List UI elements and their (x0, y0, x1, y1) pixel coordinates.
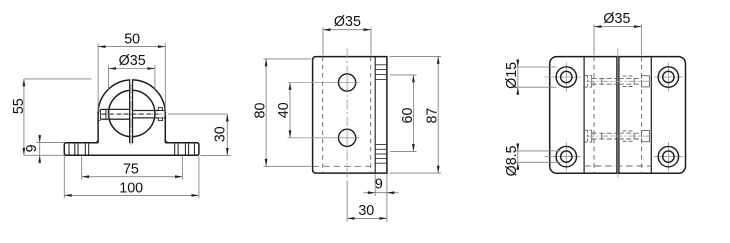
slit right line (132, 80, 134, 143)
extension line to 30 dim (346, 181, 348, 222)
dim 9 base thickness (36, 142, 64, 144)
hidden body bottom (313, 165, 371, 167)
clamp screw tabs right (158, 108, 162, 111)
dim 9 flange thickness (374, 174, 376, 196)
hole 2 centerline (288, 137, 360, 139)
svg-text:87: 87 (425, 108, 441, 124)
clamp slot through body (100, 108, 129, 110)
flange slot ticks right (174, 144, 176, 155)
svg-text:80: 80 (252, 103, 268, 119)
body right side (164, 112, 166, 143)
dim Ø15 (514, 66, 557, 68)
hidden clamp screw band 1 (584, 74, 592, 76)
dim 75 (81, 156, 83, 180)
body silhouette left (583, 57, 585, 174)
flange slot ticks left (68, 144, 70, 155)
vertical centerline right view (617, 49, 619, 180)
dim 100 (63, 156, 65, 198)
centerline extension to 30 dim (168, 113, 227, 115)
body silhouette right (650, 57, 652, 174)
hidden bore right (641, 57, 643, 174)
body left side (97, 112, 99, 143)
hole 2 (339, 129, 356, 146)
dim 40 (289, 83, 291, 138)
slot centerline dashes (102, 113, 163, 115)
hole bottom-right Ø15/Ø8.5 (654, 156, 683, 158)
dim 80 (263, 58, 311, 60)
dim 30 right (201, 154, 231, 156)
side view outline (313, 57, 387, 174)
slit left (616, 57, 618, 174)
hidden bore right (370, 57, 372, 174)
svg-text:Ø35: Ø35 (334, 14, 361, 30)
dim 50 top (97, 43, 99, 112)
dim 30 depth (347, 217, 387, 219)
hole 2 crosshair h (339, 137, 356, 139)
vertical centerline mid view (346, 49, 348, 180)
svg-text:Ø8.5: Ø8.5 (504, 145, 520, 176)
svg-text:Ø15: Ø15 (504, 62, 520, 89)
hidden bore left (322, 57, 324, 174)
dim Ø35 left view (108, 65, 110, 89)
svg-text:Ø35: Ø35 (603, 11, 630, 27)
right fillet (165, 139, 169, 143)
dim 60 (390, 74, 417, 76)
svg-text:75: 75 (123, 162, 139, 178)
body outer arc (98, 80, 165, 114)
vertical centerline (130, 84, 132, 147)
svg-text:9: 9 (375, 177, 383, 193)
svg-text:60: 60 (400, 108, 416, 124)
hole 1 centerline (288, 82, 360, 84)
hole 1 crosshair h (339, 82, 356, 84)
slit gap (white) (130, 79, 132, 143)
svg-text:Ø35: Ø35 (119, 53, 146, 69)
dim Ø35 right view (593, 24, 595, 55)
hidden bore left (593, 57, 595, 174)
slit left line (129, 80, 131, 143)
serration lines bottom (375, 144, 387, 146)
flange inner face line (374, 57, 376, 174)
base plate outline (64, 143, 199, 156)
hole top-left Ø15/Ø8.5 (544, 76, 581, 78)
plate outline (550, 57, 686, 174)
horizontal centerline (100, 113, 168, 115)
serration lines top (375, 64, 387, 66)
svg-text:100: 100 (119, 181, 143, 197)
hole 1 crosshair v (346, 74, 348, 91)
hidden clamp screw band 2 (584, 129, 592, 131)
svg-text:30: 30 (213, 126, 229, 142)
hidden body bottom edge (584, 165, 651, 167)
hole bottom-left Ø15/Ø8.5 (544, 156, 581, 158)
dim Ø8.5 (514, 150, 561, 152)
dim Ø35 middle view (322, 27, 324, 55)
svg-text:50: 50 (124, 32, 140, 48)
hole 1 (339, 74, 356, 91)
svg-text:9: 9 (24, 144, 40, 152)
hole top-right Ø15/Ø8.5 (654, 76, 683, 78)
hole 2 crosshair v (346, 129, 348, 146)
svg-text:55: 55 (11, 98, 27, 114)
svg-text:30: 30 (358, 203, 374, 219)
dim 87 (390, 55, 442, 57)
left fillet (95, 139, 99, 143)
bore circle Ø35 (109, 90, 155, 136)
svg-text:40: 40 (276, 102, 292, 118)
slit right (618, 57, 620, 174)
dim 55 left (24, 78, 92, 80)
